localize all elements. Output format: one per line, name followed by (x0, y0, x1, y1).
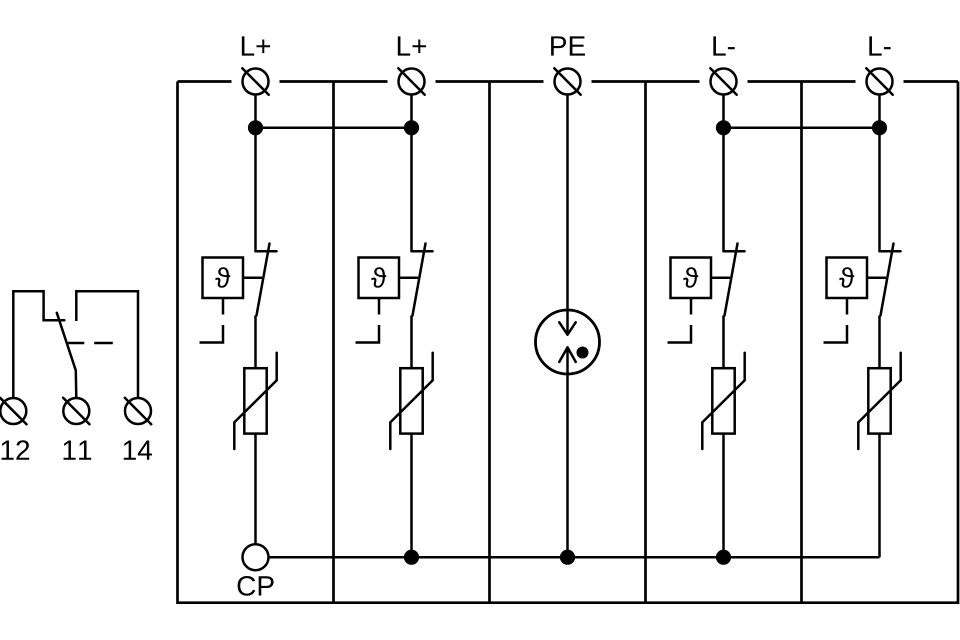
wire varistor to bottom branch 5 (878, 434, 881, 558)
wire switch to varistor branch 1 (254, 316, 257, 369)
enclosure divider 4 (800, 82, 803, 603)
junction dot bottom bus branch 2 (404, 550, 419, 565)
enclosure divider 2 (488, 82, 491, 603)
switch S5 blade (thermal disconnector) (881, 244, 894, 316)
label 12 (2, 440, 30, 460)
terminal PE top (554, 68, 580, 94)
label L- (869, 36, 890, 55)
dashed mechanical linkage F4 (668, 299, 692, 343)
varistor RV2 diagonal stroke (390, 353, 432, 449)
switch S2 blade (thermal disconnector) (413, 244, 426, 316)
varistor RV1 body (244, 368, 266, 433)
wire varistor to bottom branch 1 (254, 434, 257, 544)
thermal sensor box F2 (359, 258, 400, 299)
dashed actuator line of signalling contact (68, 342, 113, 345)
wire switch to varistor branch 5 (878, 316, 881, 369)
changeover switch blade (common of terminal 11) (57, 313, 77, 398)
wire branch 5 (L-) terminal to switch (878, 95, 881, 252)
switch S2 fixed contact tick (412, 250, 433, 253)
label theta F2 (371, 267, 386, 288)
terminal 12 (0, 398, 26, 424)
wire branch 4 (L-) terminal to switch (722, 95, 725, 252)
switch S4 blade (thermal disconnector) (725, 244, 738, 316)
wire top link L+ to L+ (256, 127, 412, 130)
wire top link L- to L- (724, 127, 880, 130)
label L+ (398, 36, 426, 55)
label PE (551, 36, 585, 55)
dashed mechanical linkage F2 (356, 299, 380, 343)
junction dot L+ branch 2 top (404, 120, 419, 135)
wire varistor to bottom branch 2 (410, 434, 413, 558)
enclosure outline left/bottom/right (178, 82, 959, 603)
varistor RV1 diagonal stroke (234, 353, 276, 449)
label 11 (64, 441, 92, 460)
wire F1 box to blade (243, 277, 262, 280)
switch S5 fixed contact tick (880, 250, 901, 253)
switch S1 blade (thermal disconnector) (257, 244, 270, 316)
wire terminal 14 to NO contact (76, 291, 138, 398)
junction dot L+ branch 1 top (248, 120, 263, 135)
varistor RV5 body (868, 368, 890, 433)
wire F5 box to blade (867, 277, 886, 280)
terminal L+ top (242, 68, 268, 94)
wire terminal 12 to NC contact (13, 291, 64, 398)
terminal L+ top (398, 68, 424, 94)
terminal 14 (125, 398, 151, 424)
varistor RV4 diagonal stroke (702, 353, 744, 449)
thermal sensor box F5 (827, 258, 868, 299)
varistor RV4 body (712, 368, 734, 433)
wire F4 box to blade (711, 277, 730, 280)
spark gap F5 circle (gas discharge tube) (536, 310, 600, 374)
terminal CP (open circle) (243, 544, 269, 570)
wire bottom bus CP to L- branch (268, 556, 880, 559)
thermal sensor box F1 (203, 258, 244, 299)
wire F2 box to blade (399, 277, 418, 280)
varistor RV5 diagonal stroke (858, 353, 900, 449)
label CP (238, 576, 274, 596)
dashed mechanical linkage F5 (824, 299, 848, 343)
dashed mechanical linkage F1 (200, 299, 224, 343)
label theta F5 (839, 267, 854, 288)
label theta F1 (215, 267, 230, 288)
spark gap F5 up-arrow head (559, 347, 575, 362)
enclosure divider 1 (332, 82, 335, 603)
junction dot L- branch 4 top (716, 120, 731, 135)
junction dot bottom bus branch 4 (716, 550, 731, 565)
wire varistor to bottom branch 4 (722, 434, 725, 558)
varistor RV2 body (400, 368, 422, 433)
wire PE terminal to spark gap (566, 95, 569, 335)
label 14 (124, 441, 152, 460)
label theta F4 (683, 267, 698, 288)
wire branch 2 (L+) terminal to switch (410, 95, 413, 252)
terminal 11 (63, 398, 89, 424)
label L+ (242, 36, 270, 55)
wire spark gap to bottom bus (PE) (566, 347, 569, 557)
spark gap F5 gas-filled dot (577, 347, 589, 359)
switch S1 fixed contact tick (256, 250, 277, 253)
terminal L- top (866, 68, 892, 94)
wire switch to varistor branch 2 (410, 316, 413, 369)
enclosure top border (with terminal gaps) (178, 80, 959, 83)
wire switch to varistor branch 4 (722, 316, 725, 369)
enclosure divider 3 (644, 82, 647, 603)
label L- (713, 36, 734, 55)
junction dot bottom bus branch 3 (560, 550, 575, 565)
terminal L- top (710, 68, 736, 94)
wire branch 1 (L+) terminal to switch (254, 95, 257, 252)
thermal sensor box F4 (671, 258, 712, 299)
switch S4 fixed contact tick (724, 250, 745, 253)
junction dot L- branch 5 top (872, 120, 887, 135)
spark gap F5 down-arrow head (559, 322, 575, 334)
